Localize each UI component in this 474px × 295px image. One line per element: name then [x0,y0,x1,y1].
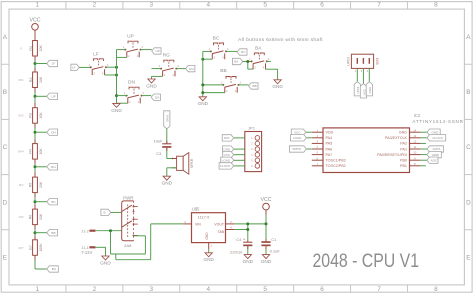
svg-text:2: 2 [93,1,97,8]
svg-text:GND: GND [205,232,209,240]
svg-text:3: 3 [150,286,154,293]
node BB ladder tap [47,230,58,236]
svg-text:ADC: ADC [431,158,438,162]
junction J1-2 branch [109,229,112,232]
node BC ladder tap [47,199,58,205]
svg-text:DN: DN [128,80,135,86]
SV3 pin numbers [355,69,369,73]
R3 side note [18,114,24,118]
junction DN rail [115,94,118,97]
svg-text:R3: R3 [29,113,33,118]
wire SV3 pin1 [356,68,358,81]
node SPKR above C3 [164,111,170,129]
wire IC2 pin9 [421,159,427,161]
wire IC2 pin1 [306,131,312,133]
node BA flag [233,58,243,64]
node DN flag [151,94,160,100]
pushbutton LF [88,51,109,75]
svg-text:VCC: VCC [362,89,366,95]
wire IC2 pin2 [306,137,311,139]
node LF flag [71,64,79,70]
node UP flag [152,48,161,54]
node GND below SV3 [366,82,372,96]
svg-text:DN: DN [155,95,159,99]
svg-text:6: 6 [320,1,324,8]
svg-text:VCC: VCC [294,130,301,134]
capacitor C3 [162,144,171,148]
regulator U$5 body [192,213,226,243]
IC2 pin names [326,131,408,169]
wire UP to rail [117,50,127,58]
svg-text:BB: BB [51,231,55,235]
svg-text:R2: R2 [29,77,33,82]
svg-text:SPKR: SPKR [190,158,194,168]
wire J1-2 to switch [95,230,121,232]
junction tap 1 [34,62,37,65]
svg-text:5: 5 [263,1,267,8]
svg-text:LOAD: LOAD [222,159,231,163]
wire IC2 pin11 [421,148,427,150]
ground rail LRUD [111,103,122,112]
svg-text:C4: C4 [236,237,242,242]
svg-text:6: 6 [320,286,324,293]
svg-text:UP: UP [51,95,55,99]
wire SPKR flag to C3 [166,129,168,144]
resistor R7 100K [29,240,43,256]
svg-text:C1: C1 [271,237,277,242]
svg-text:E: E [466,255,470,262]
svg-text:5V2: 5V2 [18,114,24,118]
connector JP1 name [248,126,256,131]
switch PWR name [123,196,133,201]
svg-text:13: 13 [413,134,417,138]
svg-text:PWR: PWR [123,196,133,201]
svg-text:20K: 20K [39,44,43,51]
wire B flag to switch [111,211,122,213]
svg-text:C: C [3,144,8,151]
wire switch loop [111,231,146,254]
svg-text:20K: 20K [39,181,43,188]
pushbutton DN [124,80,145,104]
svg-text:VCC: VCC [261,197,272,203]
wire BA flag to button [243,62,253,70]
svg-text:BC: BC [51,200,56,204]
svg-text:13V: 13V [18,215,23,219]
wire tap 2 [35,95,47,97]
R5 side note [19,183,24,187]
regulator U$5 name [192,207,200,212]
node VCC below SV3 [360,84,366,98]
wire R5 to tap [34,193,36,210]
svg-text:B: B [3,89,7,96]
J1 voltage note [81,250,92,255]
svg-text:A: A [3,34,8,41]
wire switch to VIN [116,224,183,260]
wire LF to rail [105,67,117,75]
svg-text:PA2: PA2 [400,142,407,146]
IC2 pin numbers [317,128,417,166]
node BB flag [249,83,258,89]
svg-text:10K: 10K [39,112,43,119]
svg-text:B: B [104,211,106,215]
capacitor C4 name [236,237,242,242]
junction tap 6 [34,231,37,234]
node LOAD at IC2 pin2 [290,135,306,141]
node CLOCK at JP1 [219,163,234,169]
wire RG to node RG [176,68,185,70]
R4 side note [18,150,24,154]
capacitor C1 name [271,237,277,242]
wire R3 to tap [34,123,36,143]
wire UP to node UP [141,49,152,51]
speaker SPKR polarity [171,156,174,161]
svg-text:LF: LF [52,62,56,66]
resistor R5 20K [29,177,43,193]
wire R1 to tap [34,56,36,72]
svg-text:1: 1 [36,286,40,293]
wire tap 3 [35,131,47,133]
wire JP1 CLOCK [234,165,245,167]
connector SV3 name [376,58,380,65]
svg-text:SPKR: SPKR [292,147,301,151]
svg-text:100K: 100K [39,243,43,252]
svg-text:R4: R4 [29,149,33,154]
wire tap 6 [35,232,47,234]
resistor R1 20K [29,41,43,57]
svg-text:UP: UP [155,49,159,53]
wire JP1 DIN [234,137,245,139]
svg-text:E: E [3,255,7,262]
svg-text:GND: GND [243,259,254,264]
svg-text:All buttons 6x6mm with 6mm sha: All buttons 6x6mm with 6mm shaft [238,37,323,43]
wire J1-1 to ground [95,247,105,256]
switch PWR [122,201,138,241]
junction tap 3 [34,131,37,134]
svg-text:GND: GND [272,84,283,89]
node BA ladder bottom [47,266,59,272]
wire RG to ground [152,69,163,79]
wire R4 to tap [34,159,36,177]
wire R7 to node BA [35,255,47,269]
resistor R3 10K [29,108,43,124]
ground speaker [162,176,173,185]
svg-text:PA4: PA4 [326,136,333,140]
svg-text:12: 12 [413,140,417,144]
svg-text:10: 10 [413,151,417,155]
svg-text:VCC: VCC [224,153,231,157]
wire tap 1 [35,63,47,65]
svg-text:4V7: 4V7 [18,246,24,250]
node DIN at JP1 [222,135,234,141]
svg-text:CLOCK: CLOCK [220,164,232,168]
junction tap 5 [34,200,37,203]
wire regulator to ground [208,249,210,253]
pushbutton BC [209,36,230,60]
regulator GND stub [208,243,210,249]
wire tap 4 [35,166,47,168]
wire IC2 pin4 [306,148,311,150]
R2 side note [18,78,24,82]
svg-text:220/10: 220/10 [230,249,243,254]
svg-text:JP1: JP1 [248,126,256,131]
svg-text:TOSC1/PB3: TOSC1/PB3 [326,159,346,163]
svg-text:VDD: VDD [326,131,334,135]
node GND at JP1 [223,146,234,152]
pushbutton BA [249,46,270,70]
supply VCC regulator [261,197,272,210]
capacitor C3 name [156,151,161,156]
ground rail buttons ABC [202,51,204,96]
svg-text:GND: GND [146,83,157,88]
svg-text:GND: GND [261,259,272,264]
ground BA [272,80,283,89]
wire R2 to tap [34,88,36,108]
wire JP1 LOAD [234,159,245,161]
svg-text:GND: GND [368,87,372,93]
node VCC at JP1 [223,152,234,158]
node UPDI at IC2 pin10 [427,151,441,157]
wire JP1 GND [234,148,245,150]
node DN ladder tap [47,129,58,135]
wire speaker to ground [167,168,177,176]
svg-text:7: 7 [377,286,381,293]
node B battery flag [101,209,111,215]
svg-text:DIN: DIN [224,136,229,140]
svg-text:0.1uF: 0.1uF [270,249,281,254]
svg-text:GND: GND [111,108,122,113]
title text [313,250,420,272]
wire SV3 pin2 [362,68,364,83]
svg-text:GND: GND [162,181,173,186]
connector SV3 [351,54,373,68]
svg-text:RG: RG [189,67,194,71]
svg-text:DN: DN [51,130,55,134]
regulator VIN stub [183,223,192,225]
svg-text:8: 8 [434,286,438,293]
wire IC2 pin12 [421,142,426,144]
svg-text:5: 5 [263,286,267,293]
svg-text:PA5: PA5 [326,142,333,146]
capacitor C4 value [230,249,243,254]
wire SV3 pin3 [368,68,370,81]
junction BB rail [201,83,204,94]
svg-text:TAB: TAB [217,230,224,234]
svg-text:R6: R6 [29,215,33,220]
wire R6 to tap [34,225,36,240]
pushbutton BB [220,68,241,93]
node GND at IC2 pin14 [427,129,440,135]
svg-text:SPKR: SPKR [166,115,170,122]
wire IC2 pin8 [421,165,426,167]
node UPDI below SV3 [354,82,360,96]
R6 side note [18,215,23,219]
svg-text:C3: C3 [156,151,161,156]
ground regulator [203,253,214,262]
svg-text:2048 - CPU V1: 2048 - CPU V1 [313,250,420,272]
svg-text:GND: GND [431,130,439,134]
ground RG [146,79,157,88]
svg-text:D: D [466,199,471,206]
node RG ladder tap [47,164,58,170]
svg-text:PA0/RESET/UPDI: PA0/RESET/UPDI [377,153,407,157]
regulator pin numbers [184,220,232,247]
wire BB to rail [203,85,225,93]
connector J1-2 label [81,229,88,233]
junction BC rail [201,58,204,61]
svg-text:SV3: SV3 [376,58,380,65]
node SPKR at IC2 pin4 [289,146,306,152]
wire VOUT to VCC [234,210,266,241]
node VCC at IC2 pin1 [291,129,306,135]
ground rail buttons LRUD [116,50,118,104]
svg-text:PB0: PB0 [400,159,407,163]
svg-text:PA7: PA7 [326,153,333,157]
svg-text:A: A [466,34,471,41]
svg-text:7-12V: 7-12V [81,250,92,255]
svg-text:BC: BC [241,50,246,54]
svg-text:RG: RG [51,165,56,169]
svg-text:10uF: 10uF [154,138,163,143]
svg-text:4: 4 [206,286,210,293]
wire IC2 pin10 [421,154,427,156]
svg-text:33K: 33K [39,213,43,220]
junction tap 4 [34,165,37,168]
svg-text:8: 8 [434,1,438,8]
wire LF flag to button [79,66,91,68]
node UP ladder tap [47,93,58,99]
svg-text:DATA: DATA [433,147,442,151]
ground ABC rail [198,97,209,106]
wire IC2 pin13 [421,137,427,139]
svg-text:PB1: PB1 [400,164,407,168]
wire BA to ground [266,61,278,79]
svg-text:TOSC2/PB2: TOSC2/PB2 [326,164,346,168]
node RG flag [186,65,195,71]
speaker SPKR [177,153,189,175]
capacitor C4 [243,242,252,246]
wire VCC to R1 [34,30,36,41]
junction VOUT [246,222,267,231]
svg-text:C: C [466,144,471,151]
wire DN to rail [117,96,128,104]
node CLOCK at IC2 pin13 [427,135,446,141]
wire BC to rail [203,51,213,59]
svg-text:ATTINY1614-SSNR: ATTINY1614-SSNR [412,119,463,124]
connector SV3 label UPDI [347,57,351,66]
svg-text:BA: BA [255,46,262,52]
supply VCC ladder top [30,17,41,30]
regulator pin names [195,222,225,239]
svg-text:UPDI: UPDI [347,57,351,66]
svg-text:1117-5: 1117-5 [198,214,211,219]
svg-text:PA1: PA1 [400,147,407,151]
svg-text:CLOCK: CLOCK [432,136,444,140]
capacitor C1 [261,241,270,246]
op IC2 name [414,113,421,118]
svg-text:R1: R1 [29,46,33,51]
svg-text:11V: 11V [19,183,24,187]
svg-text:LF: LF [93,51,99,57]
resistor R6 33K [29,209,43,225]
svg-text:RG: RG [163,53,170,59]
op-amp IC2 body [323,128,410,173]
pushbutton UP [123,34,144,58]
R1 side note [20,47,22,51]
IC2 pin stubs [312,132,421,166]
wire BB to node BB [239,84,249,86]
wire C1 to ground [265,239,267,255]
wire IC2 pin14 [421,131,427,133]
svg-text:U$5: U$5 [192,207,200,212]
svg-text:4: 4 [206,1,210,8]
ground C4 [243,255,254,264]
pushbutton RG [159,53,180,77]
svg-text:IC2: IC2 [414,113,421,118]
svg-text:GND: GND [198,101,209,106]
node DATA at IC2 pin11 [427,146,444,152]
svg-text:J1-2: J1-2 [81,229,88,233]
schematic note [238,37,323,43]
svg-text:1: 1 [36,1,40,8]
node ADC at IC2 pin9 [427,157,438,163]
ground J1 [100,256,111,265]
wire JP1 VCC [234,154,245,156]
svg-text:VOUT: VOUT [214,222,225,226]
connector J1-2 pin [89,230,95,232]
connector J1-1 pin [89,246,95,248]
node BC flag [237,49,247,55]
svg-text:BB: BB [253,84,257,88]
svg-text:GND: GND [100,260,111,265]
node LF ladder tap [47,60,58,66]
wire tap 5 [35,201,47,203]
svg-text:LOAD: LOAD [293,136,302,140]
connector J1-1 label [81,246,88,250]
svg-text:11: 11 [413,145,416,149]
svg-text:10K: 10K [39,148,43,155]
svg-text:3: 3 [150,1,154,8]
svg-text:B: B [466,89,470,96]
junction tap 2 [34,95,37,98]
svg-text:2: 2 [93,286,97,293]
svg-text:R7: R7 [29,245,33,250]
svg-text:UPDI: UPDI [356,86,360,93]
capacitor C4 polarity [243,236,246,241]
capacitor C1 value [270,249,281,254]
svg-text:VIN: VIN [195,222,201,226]
wire C3 to speaker [167,148,177,168]
wire C4 to ground [247,240,249,255]
svg-text:LF: LF [72,66,76,70]
svg-text:7: 7 [377,1,381,8]
svg-text:GND: GND [223,147,231,151]
svg-text:R5: R5 [29,183,33,188]
node LOAD at JP1 [221,157,234,163]
wire DN to node DN [142,95,152,97]
svg-text:GND: GND [203,257,214,262]
svg-text:D: D [3,199,8,206]
svg-text:UPDI: UPDI [432,153,440,157]
resistor R2 10K [29,72,43,88]
speaker SPKR name [190,158,194,168]
svg-text:BC: BC [213,36,220,42]
R7 side note [18,246,24,250]
svg-text:VCC: VCC [30,17,41,23]
capacitor C3 value [154,138,163,143]
wire BC to node BC [226,50,237,52]
svg-text:8V4: 8V4 [18,150,24,154]
switch PWR value [124,243,132,248]
